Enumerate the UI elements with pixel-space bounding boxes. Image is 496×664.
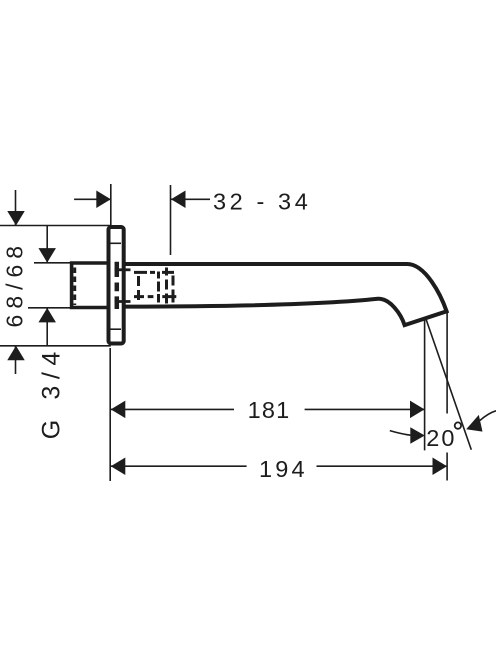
svg-text:32 - 34: 32 - 34 [213, 188, 311, 214]
svg-text:G 3/4: G 3/4 [38, 345, 66, 439]
svg-text:20: 20 [426, 425, 456, 451]
svg-text:181: 181 [248, 397, 291, 423]
svg-text:68/68: 68/68 [2, 240, 28, 328]
svg-text:194: 194 [259, 456, 308, 482]
